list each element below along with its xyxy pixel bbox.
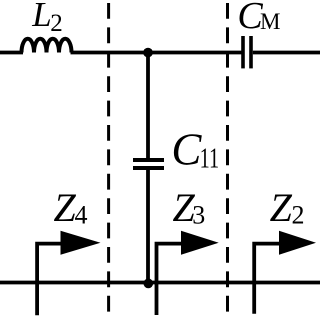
inductor L2 [22, 39, 72, 53]
node junction dot bottom [143, 279, 153, 289]
wire top middle segment [71, 51, 242, 55]
wire top right segment [253, 51, 320, 55]
svg-text:C: C [171, 124, 202, 174]
arrow Z4 tail [37, 244, 64, 316]
capacitor C11 bottom plate [133, 166, 164, 170]
svg-text:M: M [260, 9, 280, 34]
wire center vertical lower [146, 168, 150, 283]
arrow Z4 head [61, 231, 101, 255]
dashed boundary line right [226, 3, 229, 320]
svg-text:3: 3 [192, 201, 205, 230]
wire bottom bus [0, 281, 320, 285]
capacitor CM left plate [241, 36, 245, 68]
arrow Z2 head [279, 231, 316, 255]
capacitor C11 top plate [133, 158, 164, 162]
dashed boundary line left [107, 3, 110, 320]
wire top left segment [0, 51, 23, 55]
svg-text:Z: Z [270, 185, 293, 230]
wire center vertical upper [146, 53, 150, 161]
arrow Z3 tail [157, 244, 185, 315]
capacitor CM right plate [249, 36, 253, 68]
svg-text:4: 4 [75, 201, 88, 230]
arrow Z2 tail [254, 244, 281, 314]
svg-text:Z: Z [54, 185, 77, 230]
node junction dot top [143, 48, 153, 58]
svg-text:L: L [31, 0, 51, 34]
svg-text:2: 2 [50, 10, 63, 37]
svg-text:11: 11 [200, 143, 220, 175]
svg-text:2: 2 [292, 201, 305, 230]
arrow Z3 head [181, 231, 219, 255]
